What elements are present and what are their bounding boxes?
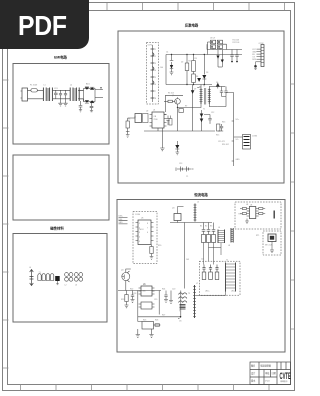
magnetics: choke symbol 3 <box>46 274 49 281</box>
svg-text:R20: R20 <box>158 245 161 247</box>
flyback: IC right wire to transformer <box>164 85 193 131</box>
magnetics: small stub below core <box>56 281 58 285</box>
flyback: dashed test-point connector CON1 <box>147 43 159 105</box>
left margin zone ticks <box>3 80 9 368</box>
flyback: mid bus wire <box>166 84 212 86</box>
CC: junction dot <box>180 316 182 318</box>
svg-text:R31: R31 <box>239 214 242 216</box>
flyback: primary top lead with diode D4 <box>197 85 201 89</box>
CC: U4 bypass cap <box>273 211 275 219</box>
flyback: opto input resistor R8 <box>126 121 129 128</box>
flyback: output connector CON3 <box>234 135 251 150</box>
svg-text:U4: U4 <box>246 204 248 206</box>
magnetics: toroid pair 2 <box>74 273 82 282</box>
svg-text:5: 5 <box>139 241 140 243</box>
svg-text:反激电路: 反激电路 <box>185 23 199 28</box>
EMI: common-mode choke L2 <box>70 88 79 102</box>
EMI: DC- output wire <box>95 97 103 99</box>
svg-text:磁性材料: 磁性材料 <box>49 226 64 231</box>
magnetics: choke symbol 4 <box>50 274 53 281</box>
svg-text:5: 5 <box>155 77 156 79</box>
svg-text:R27: R27 <box>162 315 165 317</box>
CC: bottom rail wire <box>138 291 181 317</box>
CC: second block U6 <box>141 302 152 309</box>
svg-text:EMI电路: EMI电路 <box>54 55 67 60</box>
svg-text:R25: R25 <box>143 320 146 322</box>
section box constant-current <box>117 200 285 353</box>
section box empty <box>13 155 109 220</box>
svg-text:MCU: MCU <box>140 229 145 231</box>
flyback: cap pair CC2 <box>235 50 238 61</box>
CC: transistor Q4 <box>122 273 130 281</box>
svg-text:T1: T1 <box>39 272 41 274</box>
flyback: secondary leads <box>209 87 218 107</box>
svg-text:R16 102: R16 102 <box>222 144 229 146</box>
svg-text:R7: R7 <box>185 106 187 108</box>
flyback: primary bottom lead <box>178 104 202 108</box>
flyback: vcc wire <box>165 95 183 112</box>
flyback: startup cap C5 with ground <box>165 55 167 85</box>
svg-text:R15: R15 <box>216 135 219 137</box>
svg-text:T3: T3 <box>188 293 190 295</box>
CC: wire from T2 down <box>196 291 226 296</box>
CC: vertical wire left <box>137 291 139 322</box>
svg-text:C21: C21 <box>201 259 204 261</box>
flyback: output gnd wires <box>218 97 226 107</box>
svg-text:NTC 10K: NTC 10K <box>265 245 273 247</box>
flyback: RC cluster right <box>217 124 220 131</box>
svg-text:7: 7 <box>147 228 148 230</box>
svg-text:E3: E3 <box>210 226 212 228</box>
svg-text:恒流电路: 恒流电路 <box>194 192 208 197</box>
flyback: vref parts R9 C7 <box>166 116 170 126</box>
CC: electrolytic cap E3 <box>212 223 216 235</box>
svg-text:R2: R2 <box>189 61 191 63</box>
flyback: diode D3 branch <box>203 55 205 75</box>
CC: dashed dimmer box <box>133 212 157 264</box>
flyback: transformer T1 secondary winding <box>208 89 210 105</box>
svg-text:R8: R8 <box>128 119 130 121</box>
EMI: capacitor C1 below bridge <box>90 103 94 112</box>
flyback: cap pair CC1 <box>230 50 233 61</box>
EMI: wire top rail <box>28 89 84 91</box>
svg-text:R5 103: R5 103 <box>168 93 174 95</box>
section box flyback <box>118 31 284 183</box>
EMI: varistor RV1 <box>79 101 83 112</box>
CC: LED cap CL1 <box>202 265 205 273</box>
PDF badge <box>0 0 89 49</box>
svg-text:C18: C18 <box>133 293 136 295</box>
svg-text:VO-: VO- <box>236 139 240 141</box>
CC: inductor L5 vertical <box>194 204 196 222</box>
flyback: bottom mid cap pair C13 C14 <box>177 167 192 172</box>
svg-text:1: 1 <box>139 223 140 225</box>
svg-text:CX1: CX1 <box>54 88 58 90</box>
CC: right top dashed box with IC U4 <box>235 202 281 229</box>
svg-text:U3: U3 <box>141 218 143 220</box>
EMI: ground GND2 <box>63 99 67 106</box>
CC: cap row under E-caps <box>204 243 222 265</box>
svg-text:431: 431 <box>143 291 146 293</box>
svg-text:L3: L3 <box>75 285 77 287</box>
svg-text:8: 8 <box>147 223 148 225</box>
svg-text:D3: D3 <box>206 72 208 74</box>
svg-text:T2: T2 <box>226 260 228 262</box>
svg-text:6: 6 <box>147 232 148 234</box>
flyback: snubber block rects <box>211 40 223 48</box>
flyback: ground GND4 <box>160 142 164 151</box>
CC: winding bar left of U4 box <box>231 228 233 243</box>
magnetics: transformer core block <box>55 276 60 281</box>
flyback: vertical wire right with stubs <box>232 121 234 161</box>
flyback: sense resistor R7 <box>179 109 184 113</box>
svg-text:Q4: Q4 <box>121 270 123 272</box>
svg-text:T1: T1 <box>203 109 205 111</box>
svg-text:L5: L5 <box>197 202 199 204</box>
svg-text:电源原理图: 电源原理图 <box>260 364 271 368</box>
svg-text:Q3: Q3 <box>172 208 174 210</box>
svg-text:RT1: RT1 <box>256 235 259 237</box>
svg-text:1: 1 <box>155 49 156 51</box>
EMI: DC+ output wire <box>95 88 103 90</box>
svg-text:C15 471: C15 471 <box>218 141 225 143</box>
svg-text:104: 104 <box>160 67 163 69</box>
magnetics: choke symbol 2 <box>42 274 45 281</box>
CC: dimmer IC U3 <box>138 220 151 245</box>
flyback: output cap C11 <box>224 87 227 97</box>
svg-text:F1 250V: F1 250V <box>30 84 38 86</box>
svg-text:图名: 图名 <box>251 364 255 368</box>
section box EMI <box>13 64 109 145</box>
CC: output inductor block L6 <box>218 230 225 244</box>
flyback: output bus to CON3 <box>226 93 234 167</box>
svg-text:GND: GND <box>236 159 241 161</box>
svg-text:R23: R23 <box>121 299 124 301</box>
CC: electrolytic cap E2 <box>207 223 211 235</box>
flyback: top HV bus wire <box>166 54 242 56</box>
flyback: vertical drain wire <box>177 108 179 131</box>
svg-text:L6: L6 <box>218 227 220 229</box>
svg-text:R4: R4 <box>196 76 198 78</box>
svg-text:DRV: DRV <box>252 59 257 61</box>
svg-text:103: 103 <box>186 259 189 261</box>
svg-text:E1: E1 <box>200 226 202 228</box>
EMI: X-capacitor CX1 <box>54 90 58 99</box>
EMI: bridge rectifier BD1 <box>79 87 95 103</box>
svg-text:日期: 日期 <box>272 371 277 375</box>
svg-text:L7: L7 <box>196 283 198 285</box>
flyback: CON1 pin marks <box>151 49 155 98</box>
svg-text:2: 2 <box>139 228 140 230</box>
svg-text:L1: L1 <box>44 84 46 86</box>
CC: U3 bias resistor R20 <box>151 245 153 247</box>
magnetics: rod inductor symbol <box>30 270 34 286</box>
svg-text:U4: U4 <box>250 205 252 207</box>
flyback: diode chain DD1 <box>217 50 219 68</box>
EMI: Y-capacitor CY2 <box>64 90 67 99</box>
svg-text:3: 3 <box>139 232 140 234</box>
svg-text:D2: D2 <box>181 62 183 64</box>
EMI: fuse F1 <box>31 89 37 92</box>
CC: top rail wire <box>170 222 212 224</box>
svg-text:R26: R26 <box>155 320 158 322</box>
CC: LED cap CL3 <box>215 265 218 273</box>
CC: vertical wire right <box>158 291 160 315</box>
flyback: output rectifier D6 <box>216 83 219 88</box>
svg-text:CON3: CON3 <box>252 136 257 138</box>
svg-text:6: 6 <box>155 84 156 86</box>
svg-text:DIM-: DIM- <box>119 219 123 221</box>
svg-text:D6: D6 <box>216 82 218 84</box>
flyback: opto U2 <box>135 114 142 123</box>
flyback: cap C12 <box>204 115 212 124</box>
svg-text:T1: T1 <box>203 86 205 88</box>
EMI: ground GND1 <box>58 99 62 106</box>
flyback: PWM IC U1 <box>152 112 164 128</box>
svg-text:R24: R24 <box>162 289 165 291</box>
svg-text:L8: L8 <box>228 245 230 247</box>
CC: ground GND7 <box>136 329 140 337</box>
CC: input net label arrows <box>119 218 128 224</box>
CC: lower dashed box (LED load) <box>199 261 240 295</box>
svg-text:U1: U1 <box>153 110 155 112</box>
top margin zone ticks <box>107 3 285 10</box>
svg-text:CS: CS <box>179 321 182 323</box>
magnetics: toroid pair 1 <box>65 273 73 282</box>
svg-text:L4: L4 <box>29 267 31 269</box>
svg-text:4: 4 <box>155 70 156 72</box>
svg-text:V1.0: V1.0 <box>265 381 270 383</box>
CC: U4 ground <box>245 219 249 224</box>
svg-text:LED+: LED+ <box>205 291 210 293</box>
svg-text:LED-: LED- <box>231 291 235 293</box>
svg-text:BD1: BD1 <box>86 83 90 85</box>
CC: ground GND8 <box>149 329 153 337</box>
CC: LED cap CL2 <box>209 265 212 273</box>
svg-text:CON2: CON2 <box>259 43 264 45</box>
title block <box>250 362 291 385</box>
magnetics: choke symbol 1 <box>38 274 41 281</box>
flyback: diode D5 with ground <box>175 145 179 149</box>
flyback: junction dots top bus <box>171 54 205 108</box>
svg-text:审核: 审核 <box>265 371 270 375</box>
svg-text:3: 3 <box>155 63 156 65</box>
svg-text:C4: C4 <box>166 52 168 54</box>
svg-text:VO+: VO+ <box>236 119 240 121</box>
svg-text:D7: D7 <box>194 89 196 91</box>
section box magnetics <box>13 234 107 323</box>
flyback: transformer T1 primary winding <box>200 89 202 105</box>
flyback: diode chain DD2 <box>221 50 223 68</box>
svg-text:设计: 设计 <box>251 371 256 375</box>
flyback: snubber diode stack right column <box>201 110 203 131</box>
CC: cap at rail right <box>164 291 168 303</box>
svg-text:Y1: Y1 <box>186 176 188 178</box>
CC: electrolytic cap E1 <box>202 223 206 235</box>
EMI: common-mode choke L1 <box>43 88 52 102</box>
flyback: gate resistor R6 <box>164 100 168 102</box>
svg-text:2: 2 <box>155 56 156 58</box>
svg-text:R3: R3 <box>195 58 197 60</box>
svg-text:L2: L2 <box>70 84 72 86</box>
flyback: IC bottom ground stub <box>158 128 162 142</box>
svg-text:R22: R22 <box>130 289 133 291</box>
EMI: AC input connector J1 <box>22 88 28 101</box>
CC: wire stub above Q3 <box>178 207 184 211</box>
right margin zone ticks <box>291 84 295 329</box>
svg-text:R15: R15 <box>222 122 225 124</box>
CC: main horizontal rail <box>118 290 161 292</box>
CC: shunt IC U5 <box>141 286 152 296</box>
CC: output transformer block T2 <box>226 263 236 292</box>
flyback: aux connector CON2 <box>254 45 264 70</box>
svg-text:4: 4 <box>139 237 140 239</box>
CC: sense transformer TS1 <box>179 293 187 295</box>
CC: bottom sub-block resistor pair <box>142 322 154 330</box>
flyback: transformer T1 core <box>205 88 206 105</box>
svg-text:2530: 2530 <box>154 119 158 121</box>
svg-text:7: 7 <box>155 91 156 93</box>
svg-text:CON4: CON4 <box>135 214 140 216</box>
EMI: wire bottom rail <box>28 98 84 100</box>
CC: series regulator Q3 <box>177 211 179 214</box>
svg-text:E2: E2 <box>205 226 207 228</box>
svg-text:C20: C20 <box>172 289 175 291</box>
svg-text:L2: L2 <box>65 285 67 287</box>
svg-text:R12 103: R12 103 <box>233 42 240 44</box>
CC: RC pair with grounds <box>126 291 128 295</box>
svg-text:DIM+: DIM+ <box>119 216 123 218</box>
svg-text:C19: C19 <box>154 299 157 301</box>
flyback: MOSFET Q1 <box>175 99 181 105</box>
bottom margin zone ticks <box>21 385 270 391</box>
CC: stub texts area wire <box>178 318 180 320</box>
EMI: Y-capacitor CY1 <box>59 90 62 99</box>
CC: winding pair left of T2 <box>194 285 196 318</box>
flyback: top-right wire <box>207 44 242 49</box>
svg-text:431: 431 <box>143 284 146 286</box>
svg-text:Q1: Q1 <box>172 95 174 97</box>
flyback: clamp diode D7 <box>191 90 195 94</box>
flyback: bottom bus wire <box>144 130 215 132</box>
CC: right mid dashed box with sensor <box>263 231 281 255</box>
svg-text:版本: 版本 <box>251 379 256 383</box>
svg-text:8: 8 <box>155 98 156 100</box>
flyback: resistor R2 branch <box>186 55 188 64</box>
flyback: CON1 pin column wire <box>152 45 154 102</box>
svg-text:C13: C13 <box>179 163 182 165</box>
svg-text:T3: T3 <box>179 311 181 313</box>
flyback: resistor R3 R4 chain <box>193 55 195 61</box>
svg-text:U2: U2 <box>146 111 148 113</box>
flyback: LED D2 branch <box>170 55 174 66</box>
svg-text:OB: OB <box>154 116 157 118</box>
CC: U4 pin resistors <box>240 208 265 215</box>
CC: long vertical bus <box>184 223 186 289</box>
svg-text:CON1: CON1 <box>148 45 153 47</box>
flyback: output cap C10 <box>220 87 223 97</box>
svg-text:C8 C9: C8 C9 <box>210 38 215 40</box>
svg-text:C12: C12 <box>211 112 214 114</box>
CC: gnd mid <box>169 291 173 304</box>
svg-text:GND: GND <box>119 222 124 224</box>
